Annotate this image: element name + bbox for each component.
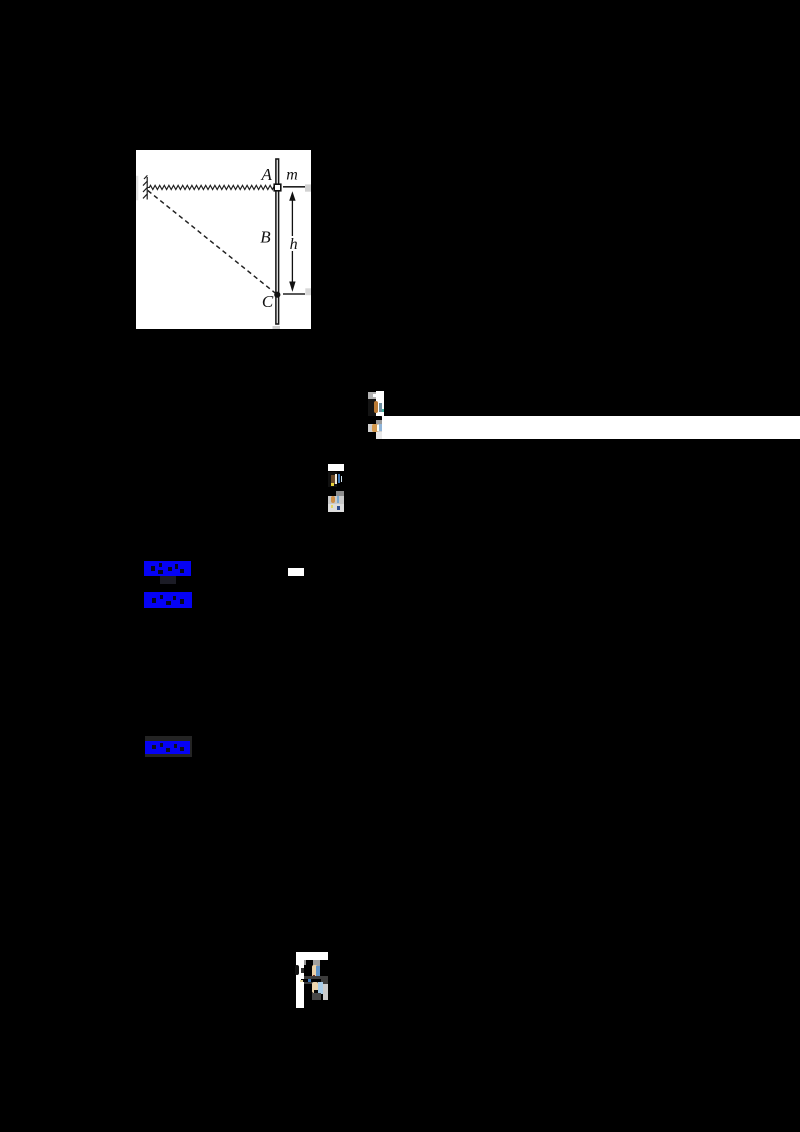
svg-text:h: h	[290, 236, 298, 253]
fraction bar black	[301, 979, 322, 982]
equation fragment B (second cluster)	[328, 464, 344, 472]
analysis link text (blue block 3 on dark box)	[145, 736, 192, 758]
gray strip at panel left edge	[136, 176, 138, 201]
gray tick inside panel edge at A level	[305, 184, 311, 191]
spring (zigzag) from wall to point A	[147, 185, 274, 189]
dot at C	[274, 292, 280, 298]
numerator glyphs	[312, 965, 316, 977]
denominator glyphs	[312, 982, 318, 993]
svg-text:C: C	[262, 292, 274, 311]
white radical top bar	[296, 952, 328, 960]
dimension arrow up	[291, 197, 293, 236]
wall anchor hatch	[143, 175, 147, 199]
gray stub below rod at panel bottom	[273, 326, 281, 329]
answer link text (blue block 2)	[144, 592, 192, 609]
dimension arrow down	[291, 251, 293, 284]
slider square at A	[274, 184, 281, 191]
svg-text:A: A	[261, 165, 273, 184]
fraction bar pill of fragment A	[368, 416, 382, 420]
white radical vertical bar	[296, 952, 304, 1008]
selection strip: white band to right page edge	[382, 416, 800, 439]
svg-text:m: m	[286, 167, 298, 184]
dashed cord from wall to C	[148, 191, 277, 295]
dark tail under block 1	[160, 576, 176, 584]
keypoint link text (blue block 1)	[144, 561, 191, 576]
svg-text:B: B	[260, 228, 271, 247]
wire: vertical rod (double line)	[276, 159, 279, 324]
physics figure: spring-rod diagram on white panel	[136, 150, 311, 329]
dark gray band around fraction bar	[304, 976, 328, 984]
white dash on answer line	[288, 568, 304, 576]
equation fragment A (top cluster)	[368, 392, 376, 400]
short reference line at A level	[283, 186, 305, 188]
gray tick inside panel edge at C level	[305, 288, 311, 295]
short reference line at C level	[283, 293, 305, 295]
black glyph on white bar	[295, 965, 299, 976]
